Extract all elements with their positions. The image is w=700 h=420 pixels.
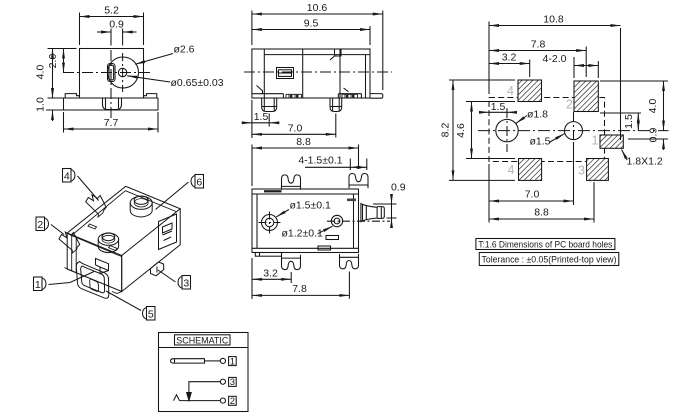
svg-text:8.8: 8.8 [296,136,311,148]
svg-text:4: 4 [507,84,514,98]
pin2 box [229,396,237,407]
bottom pin inner lines [106,98,119,109]
dim 7.0 extension lines C [489,142,574,223]
plug tip line [174,359,176,363]
leader 2 [51,225,64,235]
3D boss small top [98,233,118,253]
note box 2 [479,253,619,266]
dim 3.2 view D [252,267,291,279]
serration right group [342,94,358,98]
dim 7.8 view D [252,283,349,295]
bottom step left [252,86,283,99]
dim 5.2 extension lines [80,13,144,46]
note box 1 [476,239,615,250]
balloon 3 [178,276,191,290]
fork top-right [349,173,368,188]
3D top face [67,186,180,255]
dim 0.9 right extension [628,138,668,140]
pin 1 side [377,207,384,219]
3D socket barrel outer [76,262,109,299]
3D top fork thickness [98,211,104,218]
svg-text:2: 2 [230,396,235,407]
svg-text:0.9: 0.9 [109,19,124,31]
3D top face slot 2 [109,246,118,251]
section divider left [302,49,304,98]
svg-text:0.9: 0.9 [648,128,660,143]
svg-text:9.5: 9.5 [304,18,319,30]
dim 1.5 hole offset [481,101,516,113]
3D top face inner edge lines [72,191,177,257]
balloon 6 [191,175,203,189]
package outline dashed [489,98,605,162]
schematic title box [175,335,231,345]
svg-text:10.8: 10.8 [543,14,564,26]
3D top face slot 1 [88,224,97,229]
hole 1.8 [496,119,518,141]
balloon 4 [63,169,76,183]
svg-text:4.0: 4.0 [35,65,47,80]
dim 1.5 right extension [600,112,641,114]
hole2 vertical centerline [573,112,575,149]
svg-text:10.6: 10.6 [307,2,328,14]
slot inner line [109,65,114,80]
dim 7.0 view C [489,189,574,202]
svg-text:1: 1 [230,356,235,367]
svg-text:2: 2 [566,98,573,112]
svg-text:4.6: 4.6 [455,123,467,138]
svg-text:4: 4 [508,163,515,177]
dim 1.5 extension lines [252,100,269,138]
serration left group [286,94,302,98]
dim 7.8 extension line D [348,272,350,299]
svg-text:1.5: 1.5 [491,101,506,113]
dim 8.8 view C [489,207,594,220]
3D socket pin inside [90,279,99,291]
dim 4-1.5±0.1 [298,154,366,167]
pin collar [361,204,377,222]
dim 10.8 [489,14,621,26]
svg-text:3.2: 3.2 [502,52,517,64]
svg-text:T:1.6 Dimensions of PC board h: T:1.6 Dimensions of PC board holes [478,239,612,250]
svg-text:3: 3 [578,164,585,178]
dim 4.0 extension lines [48,49,77,99]
dim 7.8 extension line [585,47,587,78]
dim 0.9 [97,19,137,33]
svg-text:7.7: 7.7 [104,117,119,129]
svg-text:ø0.65±0.03: ø0.65±0.03 [171,77,224,89]
dim 4.0 extension line [600,80,668,82]
svg-text:1.8X1.2: 1.8X1.2 [627,156,663,168]
dim 1.0 extension lines [46,109,64,111]
dim 3.2 view C [489,52,530,64]
svg-text:1: 1 [592,134,599,148]
dim 7.0 extension line [335,114,337,138]
svg-text:7.0: 7.0 [525,189,540,201]
small rect 1 [326,236,339,240]
3D front-left wall inner lines [67,235,76,273]
svg-text:7.8: 7.8 [292,283,307,295]
pad 3 bottom-right [587,159,609,181]
dim 1.5 right [623,113,638,131]
contact box mid line [279,72,292,74]
3D right window ribs [163,223,173,241]
inner top wall line [264,54,370,56]
dim 1.0 [35,87,53,121]
contact window rect [347,199,356,202]
pad 2 top-right [574,81,598,112]
dim 8.2 extension lines [449,80,515,180]
dim 10.6 extension lines [252,11,383,91]
leader 4 [78,176,99,201]
leader dia 0.65 [127,76,224,89]
vertical centerline through circle [122,53,124,92]
pad 4 top-left [518,80,542,102]
leader 1 [49,272,95,285]
schematic divider [159,347,249,349]
3D left fork thickness [72,248,77,254]
top-right step notch [330,49,341,60]
svg-text:ø1.5±0.1: ø1.5±0.1 [290,200,332,212]
horizontal centerline [63,72,151,74]
pin3 box [229,377,237,388]
svg-text:ø1.2±0.1: ø1.2±0.1 [282,228,324,240]
svg-text:1.5: 1.5 [623,114,635,129]
svg-text:1.0: 1.0 [35,97,47,112]
dim 1.5 [242,111,280,123]
svg-text:Tolerance : ±0.05(Printed-top: Tolerance : ±0.05(Printed-top view) [482,254,617,265]
pad 4 bottom-left [519,159,542,181]
body outline B [252,49,370,98]
balloon 2 [36,217,49,231]
leader 1.8X1.2 [622,150,663,168]
svg-text:7.8: 7.8 [531,39,546,51]
schematic outer box [159,333,249,412]
3D bottom edge detail [65,268,122,294]
vertical centerline through slot/pin [110,50,112,118]
plug symbol [171,359,205,363]
svg-text:4: 4 [64,171,70,183]
centerline B [244,71,392,73]
svg-text:2.0: 2.0 [47,54,59,69]
dim 9.5 extension line [369,26,371,45]
inner left line D [256,194,258,248]
dim 8.8 extension lines D [252,145,359,187]
svg-text:3: 3 [230,377,235,388]
dim 10.8 extension lines [489,22,621,141]
switch contact triangle [187,393,192,401]
center pin hole [118,68,126,76]
svg-text:1: 1 [35,279,41,291]
horizontal centerline C [478,130,669,132]
pad 1 right [600,135,623,148]
dim 8.8 view D [252,136,359,148]
body outline D [252,189,359,253]
neck bar bottom [255,253,281,257]
dim 4.6 [455,102,472,159]
section divider right [339,49,341,98]
inner right line D [353,194,355,248]
contact box inner [279,70,292,77]
pin1 box [229,356,237,367]
dim 0.9 extension lines [111,29,123,46]
leader dia 1.5 [530,134,565,148]
dim 4-1.5 extension lines [350,159,367,171]
dim 4.6 extension lines [466,102,515,159]
right leg [330,98,342,112]
bottom step right [338,88,361,98]
bottom pin [103,98,122,110]
svg-text:1.5: 1.5 [254,111,269,123]
3D boss big top [130,196,152,217]
3D right face window [159,214,177,250]
neck bar top [264,190,282,192]
pin1 circle [220,358,225,363]
inner top line D [252,193,359,195]
hole1 D crosslines [259,212,281,234]
right mounting tab [144,94,157,98]
dim 4.0 [35,49,53,99]
body outline A [80,49,144,99]
switch bend caret [174,395,180,401]
right side pin [370,94,383,99]
leader dia 1.5±0.1 [276,200,331,217]
dim 0.9 view D [391,182,406,228]
3D front face [67,233,122,292]
dim 9.5 [252,18,370,30]
contact box outer [277,68,294,79]
dim 0.9 right [648,128,664,150]
svg-text:4.0: 4.0 [647,99,659,114]
hole 1.2 inner [334,218,340,224]
svg-text:2: 2 [37,219,43,231]
dim 4-2.0 extension lines [574,57,598,78]
svg-text:3: 3 [183,278,189,290]
svg-text:3.2: 3.2 [263,267,278,279]
3D bottom-right claw [151,262,164,276]
svg-text:5.2: 5.2 [104,5,119,17]
barrel circle [108,57,139,88]
dim 0.9 extension lines D [373,204,397,218]
dim 8.2 [440,80,454,180]
svg-text:5: 5 [148,309,154,321]
svg-text:ø2.6: ø2.6 [174,44,195,56]
svg-text:0.9: 0.9 [391,182,406,194]
pin2 circle [220,398,225,403]
svg-text:8.2: 8.2 [440,123,452,138]
fork bottom-left [282,255,301,270]
svg-text:SCHEMATIC: SCHEMATIC [176,335,228,346]
dim 10.6 [252,2,383,14]
wire pin1 [205,360,221,362]
dim 7.8 [489,39,586,51]
hole 1.5 inner [265,218,274,227]
inner right wall [365,55,367,98]
fork top-left [282,175,301,190]
pin3 circle [220,379,225,384]
flange strip [64,98,159,110]
dim 2.0 [47,49,64,73]
front plate line [263,49,265,98]
svg-text:6: 6 [196,177,202,189]
small rect 2 [318,246,331,250]
hole 1.5 [565,122,583,140]
fork bottom-right [340,254,359,269]
leader 6 [156,182,189,210]
3D socket barrel inner [81,266,105,293]
dim 7.0 view B [252,123,336,135]
leader dia 2.6 [135,44,194,65]
leader 3 [158,270,176,282]
side contact slot [108,64,116,82]
leader dia 1.2±0.1 [282,226,333,239]
left mounting tab [65,94,79,98]
dim 7.7 extension lines [64,112,159,133]
balloon 5 [143,307,155,321]
dim 5.2 [80,5,144,17]
left leg [262,98,277,112]
3D left fork [59,232,80,251]
wire pin2 [180,400,221,402]
svg-text:7.0: 7.0 [288,123,303,135]
3D right face [122,209,181,292]
hole 1.5 outer [262,215,278,231]
leader dia 1.8 [516,109,548,124]
balloon 1 [34,277,47,291]
3D front latch box [96,259,109,274]
svg-text:4-2.0: 4-2.0 [543,53,567,65]
hole2 D crossline [327,220,390,222]
leader 5 [106,291,141,311]
3D top fork [86,195,107,214]
right leg inner lines [330,98,342,111]
dim 4-2.0 [543,53,599,66]
hole 1.2 outer [331,215,342,226]
dim 7.7 [64,117,159,129]
inner bottom line D [252,247,359,249]
dim 3.2 extension lines D [252,258,291,299]
svg-text:8.8: 8.8 [534,207,549,219]
svg-text:4-1.5±0.1: 4-1.5±0.1 [298,154,342,166]
wire pin3 [189,382,220,394]
left leg inner lines [262,98,277,111]
svg-text:ø1.5: ø1.5 [530,136,551,148]
svg-text:ø1.8: ø1.8 [527,109,548,121]
dim 8.8 extension line C [593,182,595,223]
dim 3.2 extension line [529,60,531,78]
hole1 vertical centerline [506,108,508,152]
dim 4.0 view C [647,81,664,131]
